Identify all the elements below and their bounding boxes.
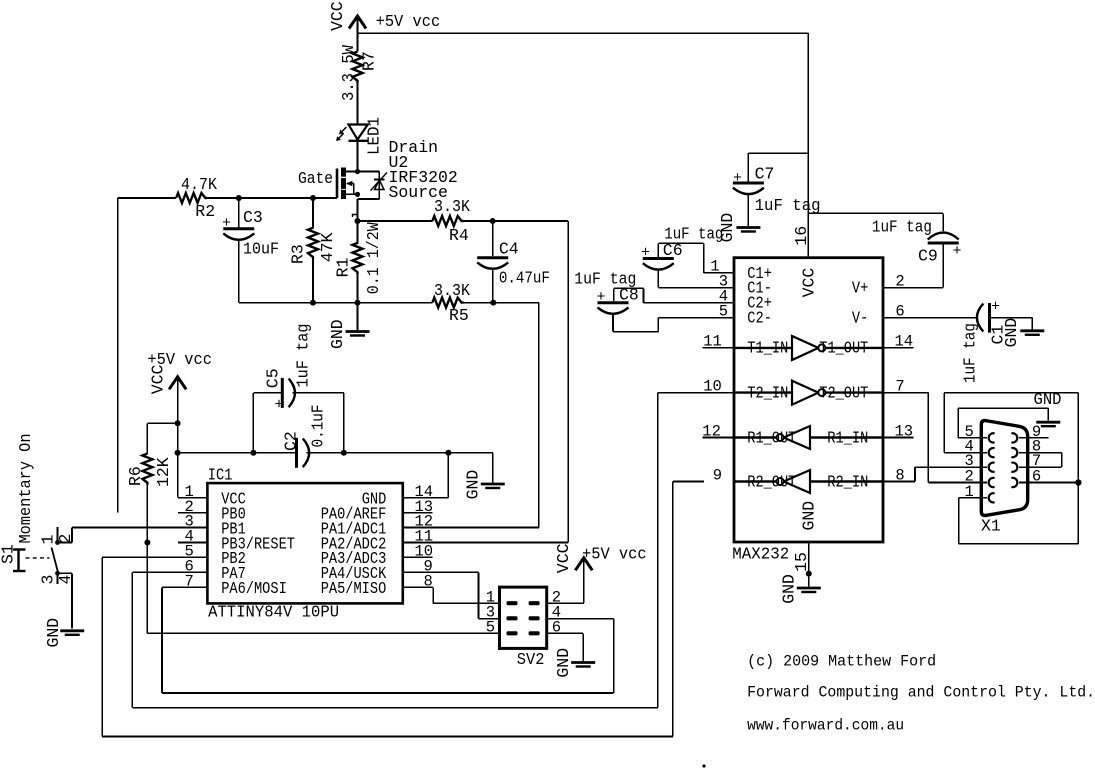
wire: [146, 423, 148, 453]
wire: [928, 482, 987, 484]
wire: [177, 453, 179, 498]
svg-text:ATTINY84V 10PU: ATTINY84V 10PU: [208, 603, 339, 622]
junction X1 pin6 tie: [1075, 479, 1081, 485]
svg-text:3.3 5W: 3.3 5W: [339, 45, 358, 101]
pin 6 stub (IC1): [178, 571, 208, 573]
wire: [957, 408, 959, 438]
X1 hole pin 1 left: [989, 493, 995, 502]
LED LED1: [349, 125, 368, 140]
svg-text:R2_OUT: R2_OUT: [747, 472, 796, 491]
wire: [431, 586, 434, 588]
wire: [292, 392, 343, 394]
wire V- pin6 to C1: [883, 317, 977, 319]
svg-text:(c) 2009 Matthew Ford: (c) 2009 Matthew Ford: [747, 653, 936, 671]
junction C5 branch left: [250, 450, 256, 456]
wire: [57, 527, 59, 543]
wire top +5V rail: [358, 32, 809, 34]
svg-text:www.forward.com.au: www.forward.com.au: [747, 717, 904, 735]
wire: [162, 692, 614, 694]
svg-text:GND: GND: [799, 501, 818, 531]
junction rail / R3: [310, 300, 316, 306]
wire: [883, 481, 915, 483]
svg-text:8: 8: [424, 573, 433, 591]
pin 12 stub (IC1): [403, 527, 433, 529]
wire: [432, 587, 434, 603]
source pin hook mark: [353, 215, 358, 218]
svg-text:+5V vcc: +5V vcc: [147, 350, 212, 369]
svg-text:15: 15: [792, 552, 811, 572]
resistor R2: [176, 193, 207, 203]
wire RESET to SV2 pin 5: [147, 632, 499, 634]
pin 11 stub (IC1): [403, 542, 433, 544]
wire: [131, 572, 133, 707]
main power rail VCC arrow (top): [349, 16, 366, 29]
resistor R5: [432, 298, 463, 308]
wire: [1019, 482, 1078, 484]
resistor R6: [142, 454, 152, 485]
svg-text:PA6/MOSI: PA6/MOSI: [221, 579, 287, 598]
svg-text:10uF: 10uF: [243, 239, 279, 258]
svg-text:C5: C5: [264, 368, 283, 388]
junction VCC / R6 branch: [175, 420, 181, 426]
svg-text:+5V vcc: +5V vcc: [582, 544, 647, 563]
pin 1 stub (IC1): [178, 497, 208, 499]
svg-text:T2_IN: T2_IN: [747, 383, 788, 402]
wire mid VCC stem down to pin1: [177, 377, 179, 498]
X1 hole pin 8 right: [1011, 448, 1017, 457]
wire: [613, 331, 658, 333]
svg-text:GND: GND: [780, 574, 799, 604]
svg-text:PA5/MISO: PA5/MISO: [321, 579, 387, 598]
svg-text:GND: GND: [328, 319, 347, 349]
wire: [808, 212, 943, 214]
svg-text:9: 9: [713, 466, 722, 484]
wire: [657, 243, 659, 257]
svg-text:C4: C4: [499, 239, 519, 258]
wire: [944, 452, 987, 454]
wire C3 bottom: [238, 240, 240, 303]
svg-text:3.3K: 3.3K: [434, 197, 470, 216]
wire R6 bottom down to SV2 pin5 route: [146, 485, 148, 634]
wire: [672, 482, 674, 737]
wire: [1077, 393, 1079, 544]
wire vcc rail to C2: [178, 452, 297, 454]
svg-text:GND: GND: [44, 618, 63, 648]
capacitor C5: [281, 378, 284, 408]
IC1 ATTINY84V box: [207, 483, 402, 603]
junction C5 branch right: [341, 450, 347, 456]
wire: [447, 453, 449, 498]
svg-text:R3: R3: [289, 244, 308, 264]
svg-text:16: 16: [792, 226, 811, 246]
svg-text:IC1: IC1: [208, 465, 233, 484]
wire: [1019, 452, 1062, 454]
svg-text:1: 1: [39, 535, 58, 545]
wire: [1047, 408, 1049, 421]
X1 hole pin 5 left: [989, 433, 995, 442]
svg-text:C2: C2: [281, 431, 300, 451]
wire: [464, 302, 494, 304]
svg-text:SV2: SV2: [517, 650, 545, 669]
svg-text:C8: C8: [619, 286, 639, 305]
wire: [432, 527, 539, 529]
wire: [464, 220, 493, 222]
wire: [479, 618, 500, 620]
svg-text:+: +: [733, 170, 742, 187]
connector X1 DB9 shell: [981, 421, 1027, 516]
wire bottom rail left part: [239, 302, 433, 304]
wire: [432, 542, 568, 544]
X1 hole pin 4 left: [989, 448, 995, 457]
svg-text:GND: GND: [1002, 318, 1021, 348]
S1 pushbutton actuator bracket: [17, 550, 19, 572]
svg-text:R6: R6: [126, 466, 145, 486]
svg-text:Momentary On: Momentary On: [16, 434, 35, 544]
wire: [582, 633, 584, 661]
S1 bottom contact: [55, 571, 60, 576]
svg-text:Gate: Gate: [298, 169, 333, 188]
ground at C1: [1020, 329, 1044, 332]
wire: [346, 193, 358, 195]
wire: [614, 287, 644, 289]
wire: [132, 571, 178, 573]
wire: [252, 393, 254, 453]
svg-text:R1: R1: [334, 257, 353, 277]
svg-text:+: +: [275, 397, 284, 414]
svg-text:1uF tag: 1uF tag: [294, 324, 313, 388]
wire: [58, 572, 73, 574]
wire: [312, 258, 314, 303]
junction source measure node: [355, 218, 361, 224]
wire: [658, 242, 703, 244]
wire: [357, 303, 359, 331]
svg-text:2: 2: [895, 272, 904, 290]
svg-text:VCC: VCC: [554, 543, 573, 573]
X1 hole pin 2 left: [989, 478, 995, 487]
junction node B (R5/C4): [490, 300, 496, 306]
wire: [478, 572, 480, 618]
pin 14 stub (IC1): [403, 497, 433, 499]
IC MAX232 box: [734, 258, 883, 542]
wire LED1 cathode to MOSFET drain: [357, 141, 359, 172]
svg-text:R2_IN: R2_IN: [827, 472, 868, 491]
wire: [944, 392, 1078, 394]
pin 2 stub (IC1): [178, 512, 208, 514]
svg-text:Forward Computing and Control: Forward Computing and Control Pty. Ltd.: [747, 684, 1095, 702]
wire: [357, 273, 359, 302]
wire C6 bottom to pin3 C1-: [658, 287, 734, 289]
junction gnd rail / pin14: [445, 450, 451, 456]
wire: [673, 481, 704, 483]
X1 hole pin 3 left: [989, 463, 995, 472]
svg-text:V-: V-: [852, 308, 868, 327]
wire: [102, 556, 178, 558]
wire: [612, 314, 614, 332]
wire: [343, 393, 345, 453]
wire: [942, 243, 944, 288]
svg-text:13: 13: [895, 422, 914, 440]
svg-text:GND: GND: [554, 648, 573, 678]
svg-text:0.1 1/2W: 0.1 1/2W: [364, 222, 383, 294]
wire R2 left: [118, 197, 177, 199]
svg-text:T1_OUT: T1_OUT: [819, 339, 868, 358]
pin 9 stub (IC1): [403, 571, 433, 573]
connector SV2: [500, 587, 547, 648]
wire: [657, 318, 659, 332]
ground at X1: [1036, 421, 1060, 424]
wire C2 right / gnd side rail: [307, 452, 449, 454]
ground under C7: [736, 226, 760, 229]
capacitor C2: [295, 438, 298, 468]
wire: [959, 497, 987, 499]
wire: [358, 171, 380, 173]
svg-text:4: 4: [56, 575, 75, 585]
wire: [492, 269, 494, 303]
svg-text:C3: C3: [243, 208, 263, 227]
+5V vcc arrow (middle, IC supply): [169, 377, 186, 390]
S1 top contact: [55, 540, 60, 545]
junction node A (R4/C4): [490, 218, 496, 224]
svg-text:R1_IN: R1_IN: [827, 428, 868, 447]
wire node B down to PA1 pin 12: [538, 303, 540, 528]
svg-text:5: 5: [486, 619, 495, 637]
transistor U2 MOSFET symbol: [336, 169, 339, 199]
wire: [748, 152, 808, 154]
svg-text:14: 14: [895, 333, 914, 351]
svg-text:1uF tag: 1uF tag: [872, 218, 932, 237]
wire: [357, 199, 359, 244]
pin 13 stub (IC1): [403, 512, 433, 514]
wire: [1031, 318, 1033, 330]
svg-text:VCC: VCC: [328, 1, 347, 31]
wire: [253, 392, 282, 394]
ground under MAX232: [797, 587, 821, 590]
svg-text:3: 3: [39, 575, 58, 585]
junction rail / R1: [355, 300, 361, 306]
wire: [958, 498, 960, 544]
wire: [583, 570, 585, 603]
MAX232 R2 buffer: [810, 480, 883, 482]
svg-text:R1_OUT: R1_OUT: [747, 428, 796, 447]
wire to R6 top: [147, 422, 177, 424]
wire node B to vertical: [493, 302, 539, 304]
wire: [346, 171, 358, 173]
pin 8 stub (IC1): [403, 586, 433, 588]
wire C9 to V+ pin2: [883, 287, 943, 289]
wire: [358, 220, 433, 222]
wire: [102, 736, 673, 738]
wire: [547, 602, 584, 604]
wire: [657, 393, 659, 708]
wire: [658, 392, 734, 394]
svg-text:VCC: VCC: [800, 268, 819, 298]
X1 hole pin 7 right: [1011, 463, 1017, 472]
wire: [358, 198, 380, 200]
wire: [161, 587, 163, 693]
wire: [613, 619, 615, 693]
wire: [101, 557, 103, 736]
wire: [942, 213, 944, 231]
svg-text:1uF tag: 1uF tag: [755, 196, 821, 215]
wire node A down to PA2 pin 11: [567, 221, 569, 543]
X1 hole pin 6 right: [1011, 478, 1017, 487]
svg-text:V+: V+: [852, 278, 868, 297]
wire: [353, 184, 355, 195]
wire: [883, 437, 914, 439]
junction gate net / C3: [236, 195, 242, 201]
svg-text:+5V vcc: +5V vcc: [376, 12, 441, 31]
wire: [238, 198, 240, 227]
svg-text:T1_IN: T1_IN: [747, 339, 788, 358]
svg-text:MAX232: MAX232: [732, 545, 789, 564]
svg-text:GND: GND: [463, 470, 482, 500]
wire: [547, 632, 584, 634]
wire: [990, 317, 1033, 319]
junction R6 / RESET pin4: [144, 540, 150, 546]
svg-text:C7: C7: [755, 165, 775, 184]
pin 7 stub (IC1): [178, 586, 208, 588]
wire: [943, 393, 945, 453]
wire: [703, 347, 735, 349]
wire S1 to PB1 pin3: [72, 527, 207, 529]
ground at S1: [60, 629, 84, 632]
svg-text:VCC: VCC: [148, 364, 167, 394]
svg-text:1uF tag: 1uF tag: [574, 269, 636, 288]
wire: [432, 571, 478, 573]
wire: [702, 437, 734, 439]
junction VCC / C2 rail: [175, 450, 181, 456]
pin 4 stub (IC1): [178, 542, 208, 544]
wire: [747, 194, 749, 226]
wire R2 right to gate: [207, 197, 337, 199]
wire VCC arrow stem to R7: [357, 16, 359, 52]
svg-text:+: +: [597, 289, 606, 306]
wire node A to vertical: [493, 220, 568, 222]
MAX232 R1 buffer: [810, 436, 883, 438]
svg-text:5: 5: [719, 302, 728, 320]
svg-text:R5: R5: [449, 306, 469, 325]
svg-text:4.7K: 4.7K: [181, 175, 217, 194]
junction source: [355, 192, 360, 197]
svg-text:C6: C6: [663, 241, 683, 260]
wire R7 to LED1: [357, 83, 359, 124]
wire: [914, 467, 916, 481]
+5V vcc arrow (SV2): [575, 558, 592, 571]
wire: [613, 288, 615, 301]
svg-text:0.47uF: 0.47uF: [499, 268, 550, 287]
wire: [1019, 466, 1062, 468]
svg-text:R2: R2: [195, 202, 215, 221]
wire: [958, 437, 987, 439]
svg-text:1uF tag: 1uF tag: [664, 225, 723, 244]
wire: [958, 407, 1048, 409]
wire R2 left down to PB0: [117, 198, 119, 513]
svg-text:C2-: C2-: [747, 308, 772, 327]
wire: [162, 586, 178, 588]
svg-text:R4: R4: [449, 226, 469, 245]
X1 hole pin 9 right: [1011, 433, 1017, 442]
wire: [432, 497, 448, 499]
wire: [808, 542, 810, 587]
svg-text:+: +: [222, 215, 231, 232]
wire pin4 C2+: [644, 302, 735, 304]
svg-text:12K: 12K: [154, 457, 173, 487]
svg-text:T2_OUT: T2_OUT: [819, 383, 868, 402]
wire VCC rail down to MAX232 pin16: [807, 33, 809, 258]
MAX232 T1 buffer: [734, 347, 792, 349]
junction drain: [355, 169, 360, 174]
wire: [883, 347, 914, 349]
wire to pin1 C1+: [704, 272, 734, 274]
pin 3 stub (IC1): [178, 527, 208, 529]
wire: [747, 153, 749, 181]
S1 lever: [52, 548, 58, 573]
wire: [433, 602, 499, 604]
svg-text:C9: C9: [918, 247, 938, 266]
svg-text:3.3K: 3.3K: [434, 281, 470, 300]
wire: [448, 452, 492, 454]
wire: [1061, 453, 1063, 468]
junction gate net / R3: [310, 195, 316, 201]
wire C8 bottom to pin5 C2-: [658, 317, 734, 319]
wire: [71, 528, 73, 543]
svg-text:R7: R7: [360, 51, 379, 71]
wire: [378, 172, 380, 200]
svg-text:S1: S1: [0, 544, 18, 564]
svg-text:+: +: [953, 243, 962, 260]
svg-text:1uF tag: 1uF tag: [961, 323, 980, 383]
wire: [71, 573, 73, 628]
wire: [57, 573, 59, 584]
resistor R7: [353, 52, 363, 83]
pin 5 stub (IC1): [178, 556, 208, 558]
svg-text:+: +: [991, 299, 1000, 316]
svg-text:+: +: [641, 245, 650, 262]
wire: [703, 243, 705, 272]
wire: [657, 270, 659, 288]
wire: [312, 198, 314, 229]
svg-text:X1: X1: [981, 517, 1001, 536]
wire: [643, 288, 645, 302]
wire: [492, 453, 494, 483]
wire: [927, 393, 929, 483]
wire: [58, 542, 73, 544]
svg-text:0.1uF: 0.1uF: [309, 405, 328, 448]
wire: [1019, 437, 1049, 439]
pin 10 stub (IC1): [403, 556, 433, 558]
body diode of U2: [374, 179, 385, 181]
svg-text:12: 12: [702, 422, 721, 440]
svg-text:LED1: LED1: [365, 117, 384, 155]
wire: [883, 392, 928, 394]
wire: [132, 707, 658, 709]
MAX232 T2 buffer: [734, 391, 792, 393]
wire: [583, 558, 585, 570]
svg-text:2: 2: [56, 534, 75, 544]
wire: [915, 466, 987, 468]
wire: [959, 543, 1079, 545]
junction pin15: [806, 571, 812, 577]
wire: [547, 618, 614, 620]
stray dot: [702, 764, 705, 767]
wire: [492, 221, 494, 256]
svg-text:7: 7: [185, 573, 194, 591]
